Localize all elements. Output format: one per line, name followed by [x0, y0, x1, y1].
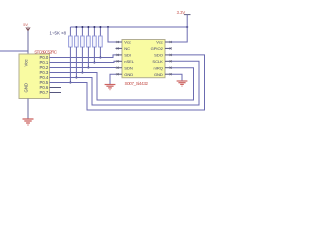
pin names U2 left: [124, 40, 134, 77]
power symbol 3.3V bar: [184, 14, 191, 16]
svg-text:nSEL: nSEL: [124, 59, 134, 64]
wire 3.3V bus: [70, 26, 187, 28]
resistor R6: [99, 36, 103, 47]
svg-text:SCLK: SCLK: [152, 59, 163, 64]
svg-text:GND: GND: [124, 72, 133, 77]
chip U2 Si4432 module body: [122, 40, 165, 78]
wire P0.4 loop to SCLK: [50, 61, 200, 105]
pin number marks U2 right: [170, 41, 172, 75]
svg-text:Vcc: Vcc: [24, 58, 29, 66]
resistor R5: [93, 36, 97, 47]
svg-text:Vcc: Vcc: [156, 40, 163, 45]
svg-text:nIRQ: nIRQ: [154, 65, 163, 70]
ground symbol below U1: [23, 119, 34, 125]
pin stubs U2 right: [165, 42, 172, 74]
pin stubs U1 right: [50, 58, 56, 83]
wire 3.3V to U2 Vcc left: [108, 27, 116, 42]
resistor R4: [87, 36, 91, 47]
wire 5V stem to U1 top: [27, 31, 29, 54]
svg-text:GND: GND: [154, 72, 163, 77]
wire 3.3V stem to U2 Vcc right: [172, 15, 188, 42]
svg-text:GND: GND: [24, 83, 29, 93]
svg-text:STC89C52RC: STC89C52RC: [34, 50, 58, 55]
svg-text:SDN: SDN: [124, 65, 133, 70]
wire Vcc rail left edge to 5V stem: [0, 50, 28, 52]
wire P0.2 to SDN: [50, 67, 116, 69]
svg-text:NC: NC: [124, 46, 130, 51]
wire P0.0 to SDI: [50, 55, 116, 58]
pin number marks U2 left: [117, 41, 119, 75]
pin stub P0.7: [50, 92, 62, 94]
chip U1 STC89C52RC body: [19, 54, 50, 99]
wire resistor bottom stubs: [70, 47, 100, 83]
wire P0.5 loop to SDO: [50, 55, 205, 110]
pin stub P0.6: [50, 87, 62, 89]
wire U1 GND stem: [27, 99, 29, 120]
wire U2 GND right to ground: [172, 74, 183, 80]
svg-text:5V: 5V: [23, 22, 28, 27]
pin names U2 right: [151, 40, 164, 77]
svg-text:SDO: SDO: [154, 53, 163, 58]
wire P0.3 loop to nIRQ: [50, 68, 194, 100]
wire resistor top stubs: [70, 27, 100, 36]
pin names P0.0-P0.7: [39, 55, 48, 95]
wire P0.1 to nSEL: [50, 61, 116, 62]
svg-text:S007_Si4432: S007_Si4432: [125, 81, 149, 86]
resistor R1: [69, 36, 73, 47]
pin stubs U2 left: [116, 42, 123, 74]
svg-text:Vcc: Vcc: [124, 40, 131, 45]
resistor R3: [81, 36, 85, 47]
svg-text:GPIO2: GPIO2: [151, 46, 164, 51]
svg-text:SDI: SDI: [124, 53, 131, 58]
svg-text:P0.7: P0.7: [39, 90, 48, 95]
power symbol 5V arrow: [26, 27, 30, 31]
ground symbol middle: [105, 85, 116, 90]
wire U2 GND left to ground: [110, 74, 116, 84]
junction dots on P0 rows: [69, 56, 101, 83]
ground symbol right: [177, 81, 188, 86]
svg-text:1~5K ×8: 1~5K ×8: [50, 31, 67, 36]
junction dots on bus: [75, 26, 188, 28]
resistor R2: [75, 36, 79, 47]
